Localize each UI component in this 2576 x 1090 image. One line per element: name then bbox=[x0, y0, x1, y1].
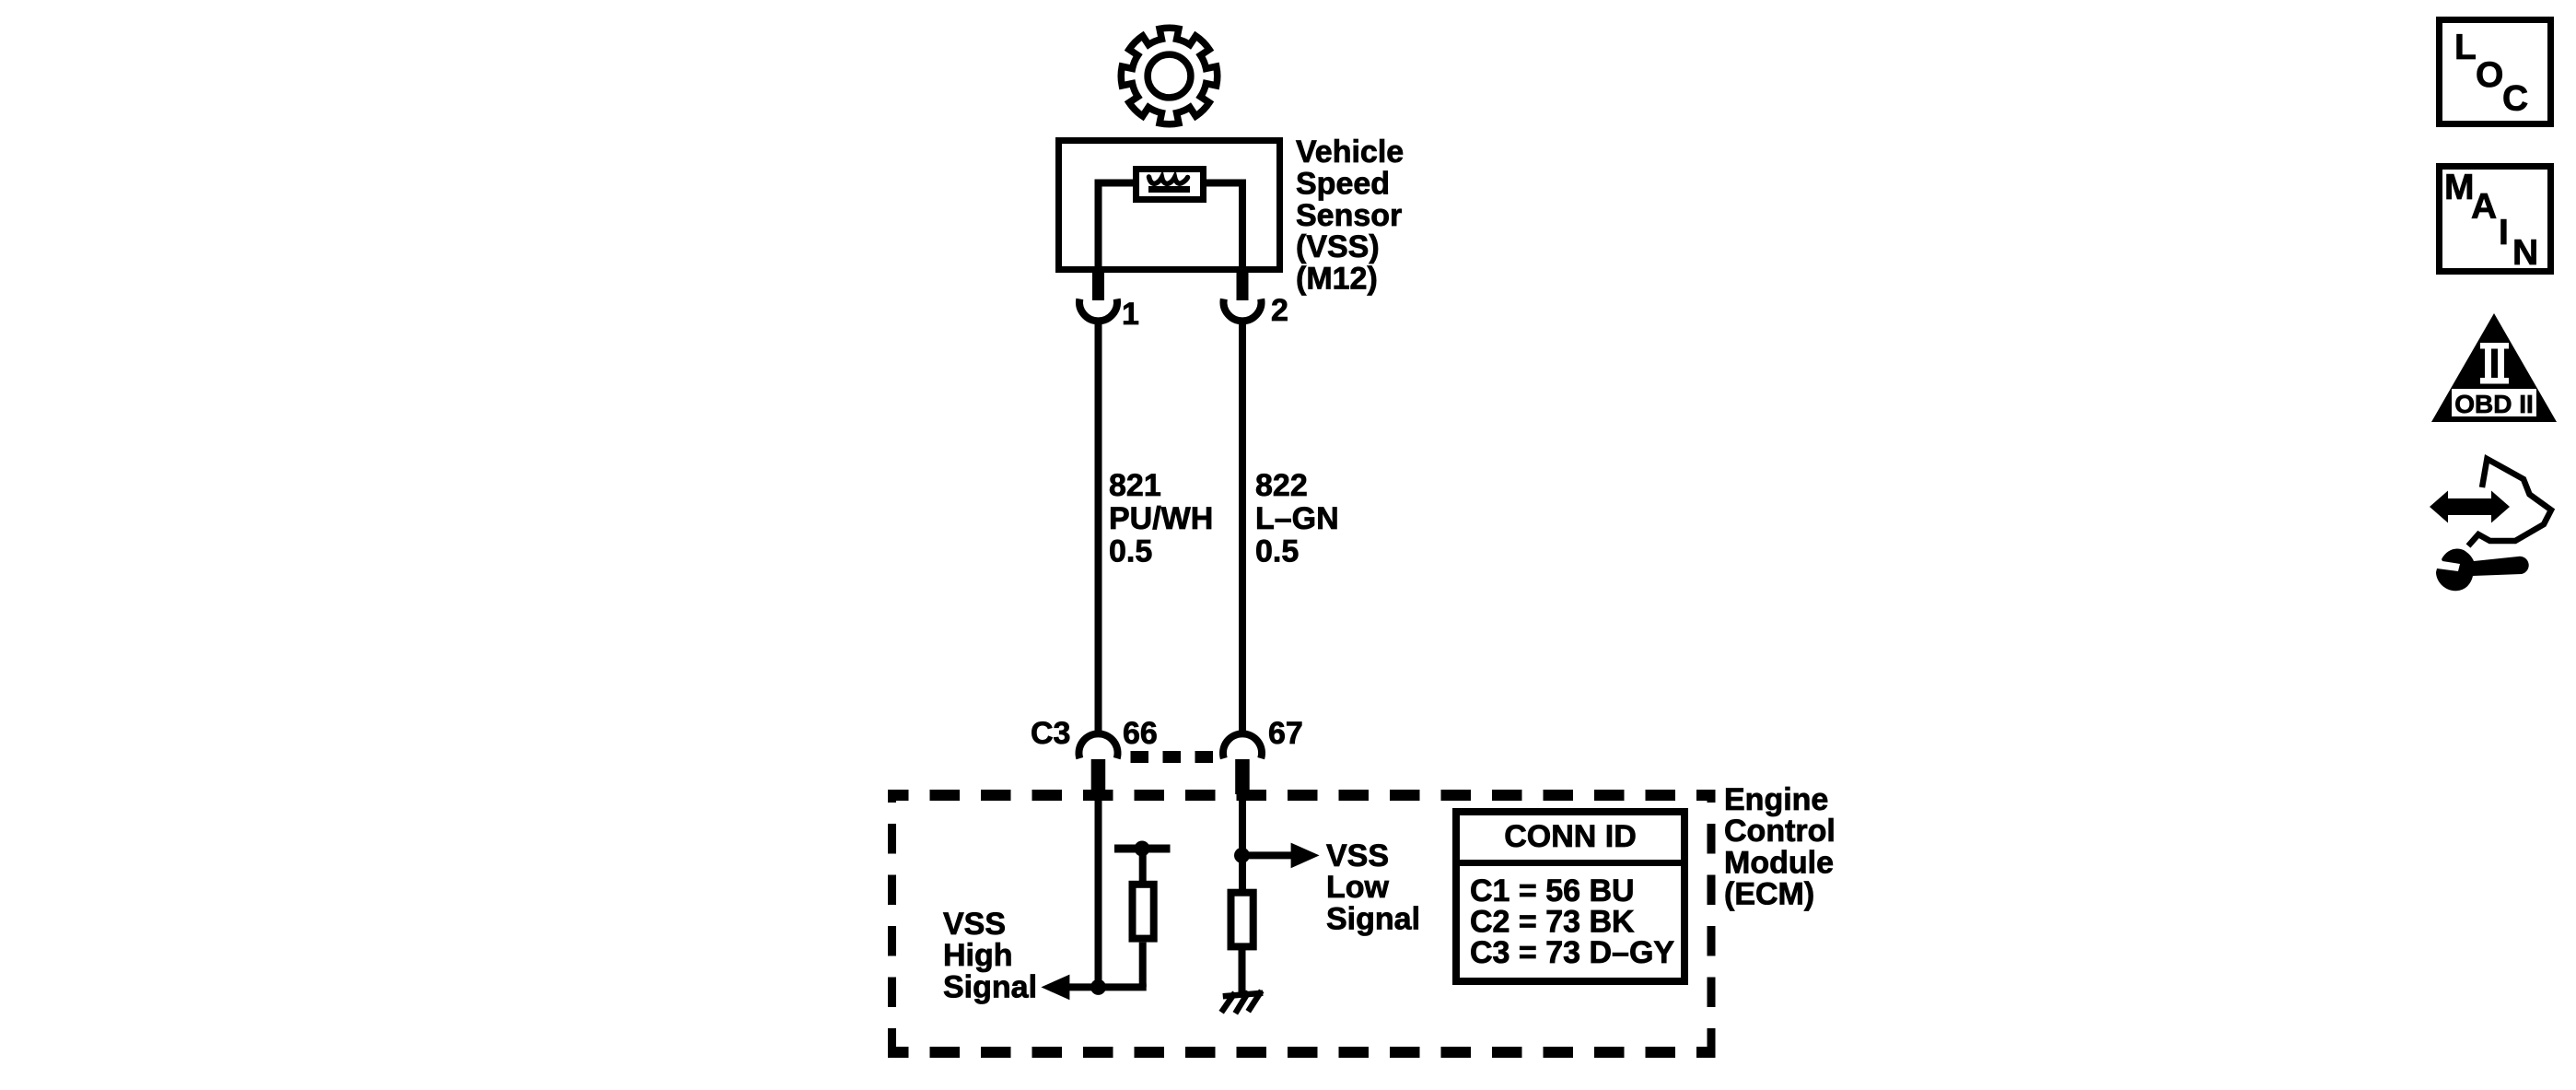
svg-text:L: L bbox=[2454, 28, 2477, 67]
svg-text:(M12): (M12) bbox=[1296, 262, 1378, 297]
connector C3 dashed link bbox=[1131, 751, 1214, 763]
resistor R1 bbox=[1133, 885, 1154, 939]
MAIN icon bbox=[2440, 167, 2551, 272]
wire sensor left bbox=[1099, 183, 1136, 274]
svg-text:0.5: 0.5 bbox=[1255, 534, 1299, 569]
wire 67 into ECM bbox=[1239, 791, 1246, 892]
VSS sensor box M12 bbox=[1059, 141, 1280, 270]
pin 1 connector bbox=[1079, 299, 1117, 321]
pin 2 stub bbox=[1237, 273, 1249, 300]
svg-text:66: 66 bbox=[1123, 716, 1158, 751]
svg-text:67: 67 bbox=[1268, 716, 1303, 751]
svg-text:(ECM): (ECM) bbox=[1724, 877, 1814, 912]
svg-text:0.5: 0.5 bbox=[1109, 534, 1152, 569]
svg-text:O: O bbox=[2476, 55, 2503, 95]
pin 67 blade bbox=[1235, 759, 1250, 794]
OBD II icon bbox=[2431, 313, 2557, 422]
svg-text:Vehicle: Vehicle bbox=[1296, 135, 1404, 170]
wire high signal horizontal bbox=[1067, 983, 1147, 990]
svg-text:OBD II: OBD II bbox=[2454, 390, 2534, 418]
svg-text:M: M bbox=[2444, 168, 2475, 207]
wire 66 into ECM bbox=[1095, 791, 1102, 987]
junction dot low bbox=[1234, 848, 1250, 863]
arrow high signal bbox=[1041, 975, 1069, 1001]
pin 66 connector bbox=[1079, 733, 1118, 758]
svg-text:VSS: VSS bbox=[1326, 838, 1389, 873]
svg-text:A: A bbox=[2471, 187, 2497, 227]
svg-text:High: High bbox=[943, 938, 1013, 973]
svg-text:Module: Module bbox=[1724, 845, 1834, 880]
svg-text:Low: Low bbox=[1326, 870, 1390, 905]
wire sensor right bbox=[1203, 183, 1242, 274]
harness outline bbox=[2468, 459, 2551, 546]
wrench bbox=[2436, 548, 2529, 591]
wire 822 bbox=[1239, 321, 1246, 733]
LOC icon bbox=[2440, 20, 2551, 124]
svg-text:1: 1 bbox=[1122, 297, 1139, 332]
svg-text:PU/WH: PU/WH bbox=[1109, 501, 1213, 536]
pin 2 connector bbox=[1224, 299, 1262, 321]
termination bar bbox=[1114, 845, 1171, 853]
svg-text:(VSS): (VSS) bbox=[1296, 229, 1380, 264]
arrow low signal bbox=[1291, 843, 1320, 869]
wire low signal horizontal bbox=[1242, 851, 1294, 859]
svg-text:C3: C3 bbox=[1031, 716, 1070, 751]
resistor R1 wire bottom bbox=[1139, 943, 1147, 988]
svg-text:C3 = 73 D–GY: C3 = 73 D–GY bbox=[1470, 935, 1674, 970]
CONN ID table bbox=[1456, 812, 1684, 981]
svg-text:VSS: VSS bbox=[943, 907, 1006, 942]
svg-text:C1 = 56 BU: C1 = 56 BU bbox=[1470, 873, 1635, 908]
svg-text:Signal: Signal bbox=[1326, 901, 1420, 936]
svg-text:CONN ID: CONN ID bbox=[1504, 819, 1637, 854]
ground bbox=[1223, 993, 1260, 1011]
resistor R2 wire bottom bbox=[1239, 946, 1246, 995]
resistor R2 bbox=[1231, 893, 1253, 947]
wire 821 bbox=[1095, 321, 1102, 733]
resistor R1 wire top bbox=[1139, 845, 1147, 885]
svg-text:Control: Control bbox=[1724, 814, 1836, 849]
svg-text:822: 822 bbox=[1255, 468, 1308, 503]
double arrow bbox=[2445, 498, 2493, 515]
sensor element bbox=[1136, 170, 1204, 200]
svg-text:L–GN: L–GN bbox=[1255, 501, 1339, 536]
gear icon bbox=[1121, 28, 1217, 123]
svg-text:C: C bbox=[2502, 79, 2528, 119]
svg-text:I: I bbox=[2499, 213, 2509, 252]
pin 1 stub bbox=[1092, 273, 1104, 300]
pin 66 blade bbox=[1091, 759, 1106, 794]
svg-text:Sensor: Sensor bbox=[1296, 198, 1402, 233]
svg-text:Engine: Engine bbox=[1724, 782, 1828, 817]
pin 67 connector bbox=[1223, 733, 1262, 758]
junction dot bar bbox=[1135, 841, 1150, 857]
svg-text:N: N bbox=[2512, 233, 2538, 273]
svg-text:821: 821 bbox=[1109, 468, 1161, 503]
junction dot high bbox=[1090, 979, 1106, 995]
svg-text:Speed: Speed bbox=[1296, 166, 1390, 201]
svg-text:C2 = 73 BK: C2 = 73 BK bbox=[1470, 904, 1635, 939]
svg-text:2: 2 bbox=[1271, 293, 1288, 328]
ECM dashed box bbox=[888, 790, 1715, 801]
svg-text:Signal: Signal bbox=[943, 969, 1037, 1004]
